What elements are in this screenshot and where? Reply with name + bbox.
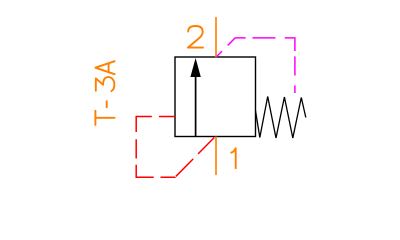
port 1 line <box>215 137 217 176</box>
port 2 line <box>215 17 217 57</box>
drain line (red dashed) <box>136 117 214 178</box>
label T-3A rotated <box>95 61 114 125</box>
label 2 <box>188 26 203 48</box>
arrowhead <box>190 58 200 77</box>
valve body box <box>175 57 256 137</box>
pilot line (magenta dashed) <box>216 38 295 93</box>
spring <box>256 97 306 139</box>
label 1 <box>231 148 236 168</box>
arrow stem <box>195 75 197 137</box>
